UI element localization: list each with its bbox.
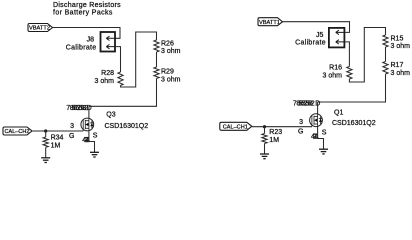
resistor R15: [383, 35, 388, 47]
resistor R17: [383, 62, 388, 75]
J5 pin 1 arrow: [336, 30, 345, 34]
junction node (gate / R23): [263, 125, 266, 128]
resistor R34: [43, 131, 48, 158]
svg-text:S: S: [322, 129, 327, 136]
resistor R29: [154, 67, 159, 79]
wire R17 down to Q1 drain rail: [318, 74, 386, 102]
svg-text:1M: 1M: [51, 143, 61, 150]
svg-text:R16: R16: [329, 64, 342, 71]
resistor R26: [154, 40, 159, 52]
Q3 drain pin numbers 5 6 7 8 (overlapped): [66, 105, 88, 112]
wire R28 bottom up to R26 top: [121, 32, 157, 87]
svg-text:S: S: [93, 133, 98, 140]
svg-text:R17: R17: [391, 62, 404, 69]
svg-text:J8: J8: [87, 37, 95, 44]
J8 pin 1 arrow: [106, 36, 115, 40]
svg-text:3: 3: [299, 119, 303, 126]
svg-text:3 ohm: 3 ohm: [323, 73, 343, 80]
svg-text:CSD16301Q2: CSD16301Q2: [332, 120, 376, 127]
svg-text:3 ohm: 3 ohm: [95, 78, 115, 85]
svg-text:Calibrate: Calibrate: [66, 44, 97, 51]
Q3 source pin numbers 1 2 4 (overlapped): [82, 137, 90, 144]
svg-text:G: G: [69, 133, 74, 140]
svg-text:3: 3: [70, 123, 74, 130]
svg-text:R34: R34: [51, 135, 64, 142]
svg-text:R28: R28: [101, 70, 114, 77]
Q1 source pin numbers 1 2 4 (overlapped): [311, 134, 319, 141]
svg-text:CAL–CH1: CAL–CH1: [223, 124, 248, 130]
svg-text:3 ohm: 3 ohm: [391, 70, 411, 77]
wire Q1 source to ground: [318, 127, 324, 149]
wire R29 down to Q3 drain rail: [89, 79, 157, 107]
ground (Q3 source): [90, 152, 99, 157]
ground (Q1 source): [319, 149, 328, 154]
svg-text:R15: R15: [391, 36, 404, 43]
svg-text:1M: 1M: [269, 137, 279, 144]
svg-text:CAL–CH2: CAL–CH2: [5, 129, 30, 135]
connector J5: [329, 28, 345, 48]
net flag VBATT2: [28, 24, 53, 32]
resistor R23: [262, 127, 267, 154]
resistor R16: [347, 67, 352, 80]
resistor R28: [118, 72, 123, 86]
transistor Q1 (N-MOSFET with body diode): [310, 114, 323, 127]
wire R16 bottom up to R15 top: [349, 28, 385, 83]
svg-text:G: G: [298, 129, 303, 136]
svg-text:CSD16301Q2: CSD16301Q2: [105, 123, 149, 130]
wire R15 to R17: [385, 47, 387, 62]
svg-text:R26: R26: [161, 41, 174, 48]
svg-text:R23: R23: [269, 129, 282, 136]
wire Q3 drain riser: [88, 106, 90, 118]
wire VBATT1 to J5 pin 1: [283, 22, 350, 33]
wire Q1 drain riser: [317, 102, 319, 114]
wire J5 pin 2 down to R16: [344, 42, 349, 67]
svg-text:2: 2: [311, 101, 315, 108]
svg-text:3 ohm: 3 ohm: [391, 43, 411, 50]
svg-text:Discharge Resistors: Discharge Resistors: [53, 2, 121, 9]
wire VBATT2 to J8 pin 1: [53, 28, 121, 39]
connector J8: [101, 32, 116, 52]
junction node (gate / R34): [44, 129, 47, 132]
ground (below R34): [41, 158, 50, 163]
J8 pin 2 arrow: [106, 44, 115, 48]
Q1 drain pin numbers 5 6 7 8 (overlapped): [293, 101, 315, 108]
net flag CAL-CH2: [3, 127, 32, 135]
svg-text:Q1: Q1: [334, 109, 343, 116]
J5 pin 2 arrow: [336, 40, 345, 44]
svg-text:VBATT2: VBATT2: [29, 26, 50, 32]
svg-text:3 ohm: 3 ohm: [161, 76, 181, 83]
svg-text:for Battery Packs: for Battery Packs: [53, 9, 113, 16]
wire CAL-CH1 to Q1 gate: [252, 126, 312, 128]
wire R26 to R29: [156, 52, 158, 67]
ground (below R23): [260, 154, 269, 159]
wire J8 pin 2 down to R28: [115, 47, 121, 72]
svg-text:VBATT1: VBATT1: [259, 20, 280, 26]
svg-text:3 ohm: 3 ohm: [161, 48, 181, 55]
wire CAL-CH2 to Q3 gate: [32, 130, 83, 132]
net flag VBATT1: [258, 18, 283, 26]
transistor Q3 (N-MOSFET with body diode): [81, 118, 94, 131]
svg-text:R29: R29: [161, 69, 174, 76]
svg-text:J5: J5: [316, 32, 324, 39]
net flag CAL-CH1: [220, 122, 252, 130]
svg-text:Q3: Q3: [106, 112, 115, 119]
svg-text:Calibrate: Calibrate: [295, 40, 326, 47]
wire Q3 source to ground: [89, 131, 95, 152]
